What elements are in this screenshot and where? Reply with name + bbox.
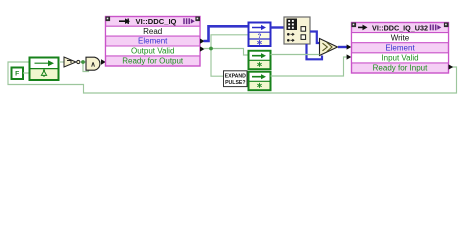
register box B (expand pulse): [249, 72, 271, 90]
svg-text:Ready for Output: Ready for Output: [122, 57, 184, 66]
AND gate: [86, 57, 100, 70]
wire box B output to input-valid: [271, 57, 348, 76]
svg-text:F: F: [15, 71, 19, 78]
svg-text:∧: ∧: [90, 61, 95, 68]
label EXPAND PULSE?: [224, 71, 248, 87]
wire NOT output branch down to AND lower input: [83, 62, 89, 72]
wire output-valid branch down to pulse box B: [211, 49, 248, 77]
svg-text:VI::DDC_IQ_U32: VI::DDC_IQ_U32: [372, 23, 428, 32]
wire pack lower output to join lower input: [307, 44, 323, 59]
wire blue register to pack box: [271, 26, 285, 28]
icon read-arrow left of title: [119, 18, 130, 24]
FIFO read node VI::DDC_IQ: [106, 17, 201, 67]
icon write-arrow left of title: [358, 25, 368, 31]
wire pack upper output to join: [310, 32, 320, 44]
corner chip top-left: [352, 23, 357, 28]
pin output-valid output arrow: [200, 46, 205, 51]
pin element output arrow: [200, 39, 205, 44]
node junction dot: [81, 60, 85, 64]
register box A (valid pipeline): [249, 51, 271, 69]
wire box A output to join lower-left: [271, 54, 320, 56]
corner chip top-left: [106, 17, 111, 22]
svg-text:VI::DDC_IQ: VI::DDC_IQ: [136, 17, 177, 26]
svg-text:Ready for Input: Ready for Input: [373, 64, 428, 73]
corner chip top-right: [195, 17, 200, 22]
NOT gate: [64, 57, 80, 67]
wire ready-for-input loopback rail: [8, 62, 457, 93]
svg-text:Write: Write: [391, 33, 410, 42]
corner chip top-right: [444, 23, 449, 28]
pin input-valid input arrow: [347, 54, 352, 59]
icon fifo-bars right of title: [431, 25, 442, 31]
join numbers triangle: [320, 39, 338, 56]
svg-text:Read: Read: [143, 27, 162, 36]
pack box (join I/Q words): [284, 17, 310, 44]
svg-text:?: ?: [258, 33, 262, 40]
svg-text:Element: Element: [138, 37, 168, 46]
wire NOT output to AND: [81, 61, 86, 63]
wire register to NOT: [59, 61, 64, 63]
register node blue (element pipeline): [249, 23, 271, 47]
wire F to register bottom row: [23, 72, 29, 74]
svg-text:Output Valid: Output Valid: [131, 47, 174, 56]
svg-text:EXPAND: EXPAND: [225, 73, 246, 79]
wire join output to element input: [338, 46, 347, 48]
svg-text:Element: Element: [385, 44, 415, 53]
pin ready-for-output input arrow: [101, 59, 106, 64]
svg-text:PULSE?: PULSE?: [225, 80, 245, 86]
FIFO write node VI::DDC_IQ_U32: [352, 23, 449, 74]
wire AND output to FIFO read node: [100, 61, 102, 63]
node junction dot output-valid: [209, 47, 213, 51]
wire output-valid trunk: [204, 49, 249, 56]
constant F (false boolean): [12, 68, 24, 80]
svg-text:Input Valid: Input Valid: [381, 54, 418, 63]
register node (left green box): [30, 58, 59, 81]
wire output-valid branch up to ? input: [211, 35, 248, 49]
pin element input arrow: [347, 44, 352, 49]
wire element (u32) to register top row: [204, 26, 249, 41]
icon fifo-bars right of title: [184, 18, 195, 24]
pin ready-for-input output arrow: [449, 64, 454, 69]
